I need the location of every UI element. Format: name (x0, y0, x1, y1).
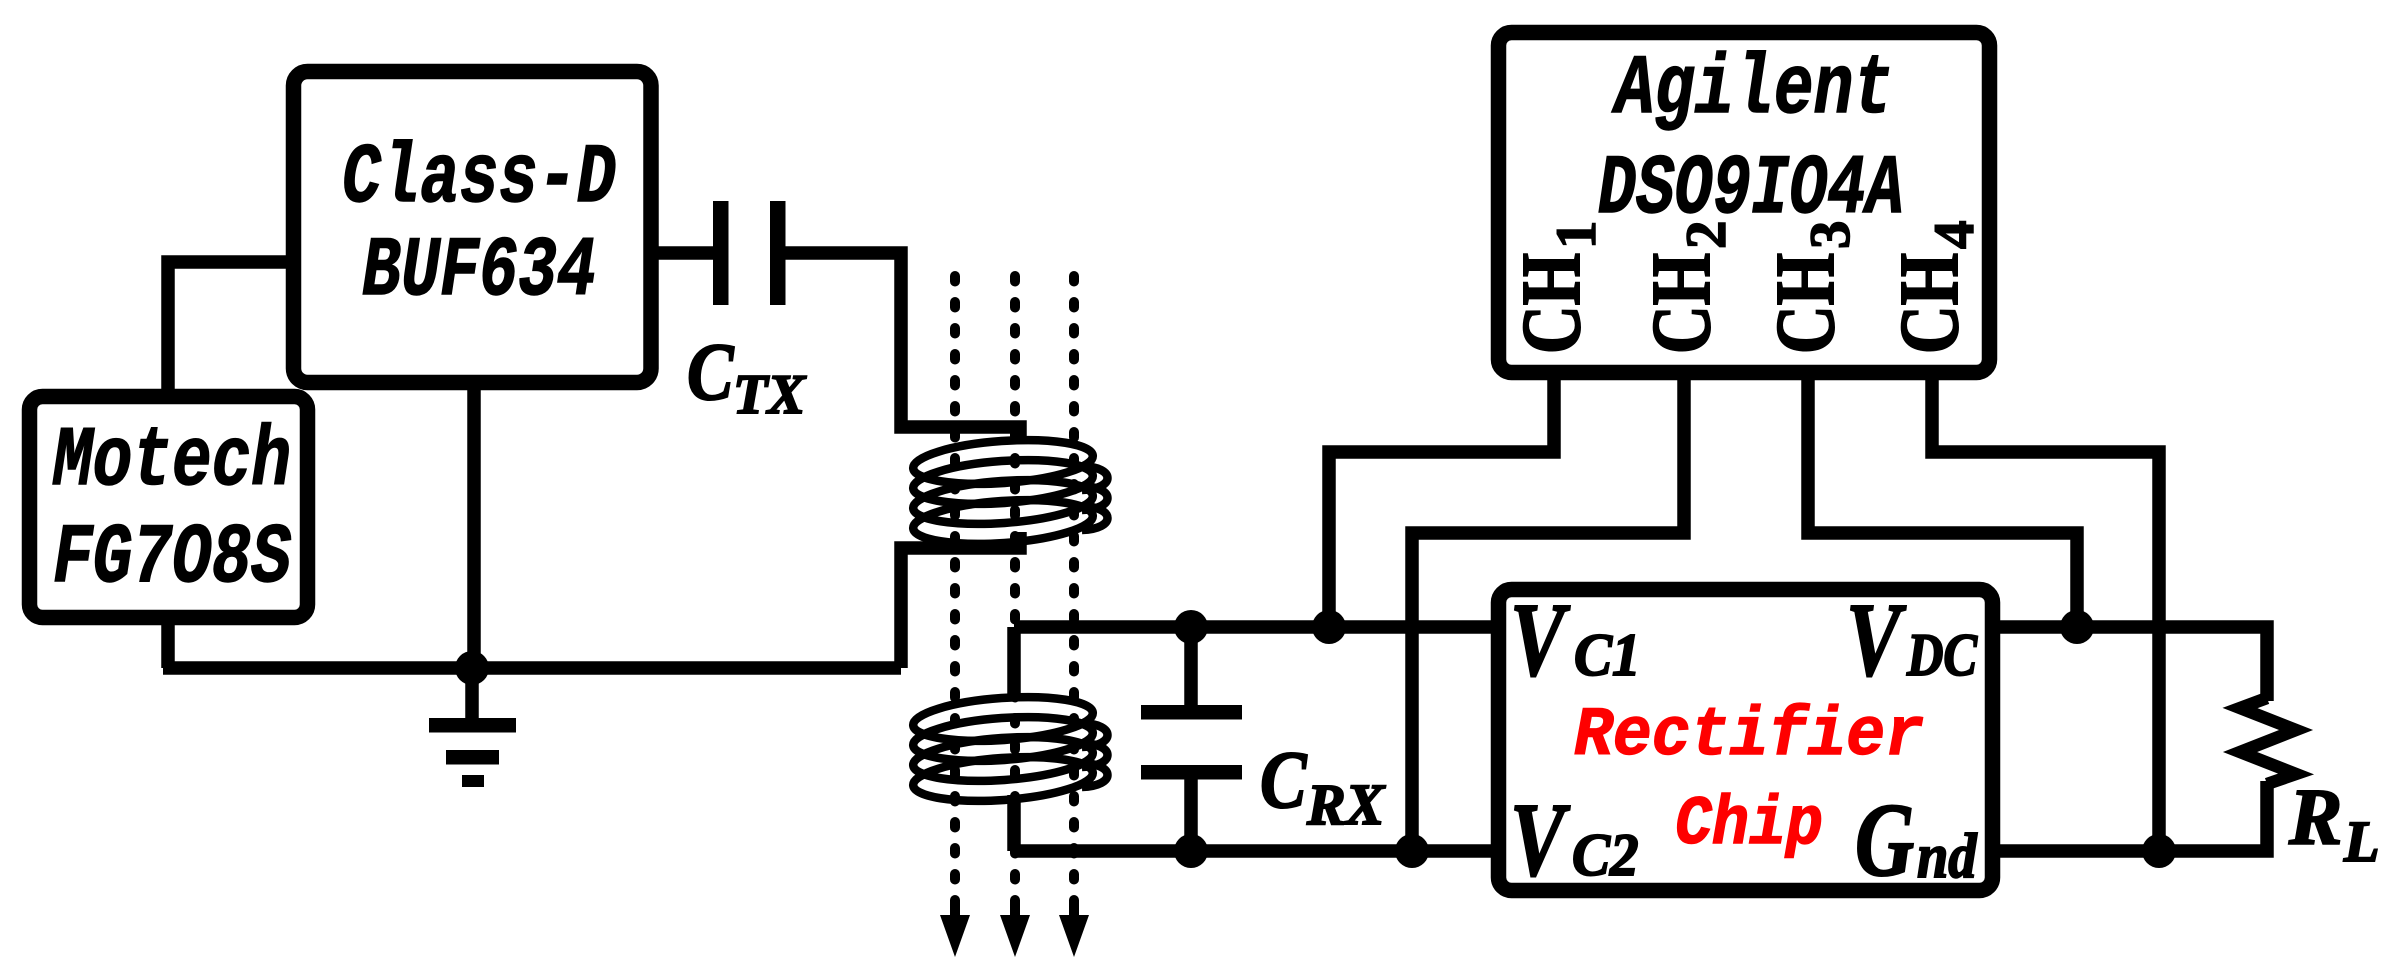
label RL (2288, 774, 2379, 874)
svg-text:3: 3 (1799, 221, 1862, 250)
box: Rectifier Chip (1499, 590, 1993, 891)
svg-text:Chip: Chip (1675, 786, 1823, 864)
svg-text:DC: DC (1906, 622, 1978, 688)
label CH3 (1759, 221, 1862, 355)
wire: RX coil bottom to VC2 rail (1007, 795, 1021, 851)
svg-text:CH: CH (1759, 253, 1852, 354)
svg-text:Rectifier: Rectifier (1574, 697, 1924, 775)
wire: ground rail (163, 661, 901, 675)
pin label VC1 (1510, 582, 1641, 698)
wire: CH4 probe to Gnd rail (1932, 376, 2159, 851)
svg-text:C: C (687, 327, 735, 418)
svg-text:FG7O8S: FG7O8S (53, 512, 291, 607)
svg-text:C2: C2 (1572, 822, 1639, 889)
label CH4 (1883, 221, 1986, 355)
wire: VDC rail to load (1990, 627, 2267, 701)
wire: CTX to TX coil (785, 253, 1020, 442)
svg-text:CH: CH (1883, 253, 1976, 354)
wire: CH1 probe to VC1 rail (1329, 376, 1554, 627)
wire: Motech output to Class-D input (168, 262, 293, 396)
node: CH3 junction on VDC rail (2060, 610, 2094, 644)
svg-text:2: 2 (1675, 221, 1738, 250)
svg-text:G: G (1855, 782, 1914, 898)
svg-text:C1: C1 (1574, 622, 1641, 689)
box: Motech FG708S function generator (30, 397, 308, 618)
wire: TX coil return to ground rail (901, 532, 1020, 668)
capacitor CRX (1141, 627, 1242, 851)
node: CRX top junction (1174, 610, 1208, 644)
svg-text:Motech: Motech (52, 415, 291, 510)
ground symbol (429, 668, 516, 787)
svg-text:TX: TX (733, 364, 807, 426)
svg-text:4: 4 (1923, 221, 1986, 250)
wire: CH3 probe to VDC rail (1808, 376, 2077, 627)
inductor: TX coil (912, 435, 1108, 549)
svg-text:Agilent: Agilent (1611, 43, 1893, 138)
wire: RX coil top to VC1 rail (1007, 627, 1021, 700)
svg-text:V: V (1846, 582, 1907, 698)
wire: VC2 rail (RX bottom to rectifier) (1014, 844, 1500, 858)
wire: Motech bottom pin to ground rail (161, 612, 175, 668)
svg-text:V: V (1510, 782, 1571, 898)
capacitor CTX plates (713, 201, 786, 305)
box: Class-D BUF634 amplifier (294, 72, 652, 383)
svg-text:CH: CH (1635, 253, 1728, 354)
label CH1 (1505, 221, 1608, 355)
pin label VC2 (1510, 782, 1639, 898)
pin label VDC (1846, 582, 1978, 698)
wire: Gnd rail to load (1990, 781, 2267, 851)
wire: Class-D bottom pin to ground rail (467, 376, 481, 668)
svg-text:R: R (2288, 774, 2342, 862)
svg-text:nd: nd (1917, 821, 1977, 892)
wire: Class-D output to capacitor CTX (655, 246, 713, 260)
node: CH1 junction on VC1 rail (1312, 610, 1346, 644)
node: CRX bottom junction (1174, 834, 1208, 868)
svg-text:V: V (1510, 582, 1571, 698)
svg-text:BUF634: BUF634 (362, 225, 596, 320)
svg-text:RX: RX (1306, 772, 1386, 837)
svg-text:C: C (1260, 735, 1308, 826)
svg-text:1: 1 (1545, 221, 1608, 250)
inductor: RX coil (912, 692, 1108, 806)
node: CH2 junction on VC2 rail (1395, 834, 1429, 868)
node: CH4 junction on Gnd rail (2142, 834, 2176, 868)
wire: CH2 probe to VC2 rail (1412, 376, 1684, 851)
svg-text:CH: CH (1505, 253, 1598, 354)
svg-text:Class-D: Class-D (342, 132, 616, 227)
label CTX (687, 327, 807, 426)
node: ground junction dot (455, 651, 489, 685)
flux: dashed field lines with arrows (940, 276, 1089, 957)
wire: VC1 rail (RX top to rectifier) (1014, 620, 1500, 634)
label CRX (1260, 735, 1386, 837)
label CH2 (1635, 221, 1738, 355)
svg-text:L: L (2343, 809, 2379, 874)
resistor RL (2240, 698, 2296, 784)
box: Agilent DSO9104A oscilloscope (1499, 33, 1990, 373)
pin label Gnd (1855, 782, 1977, 898)
